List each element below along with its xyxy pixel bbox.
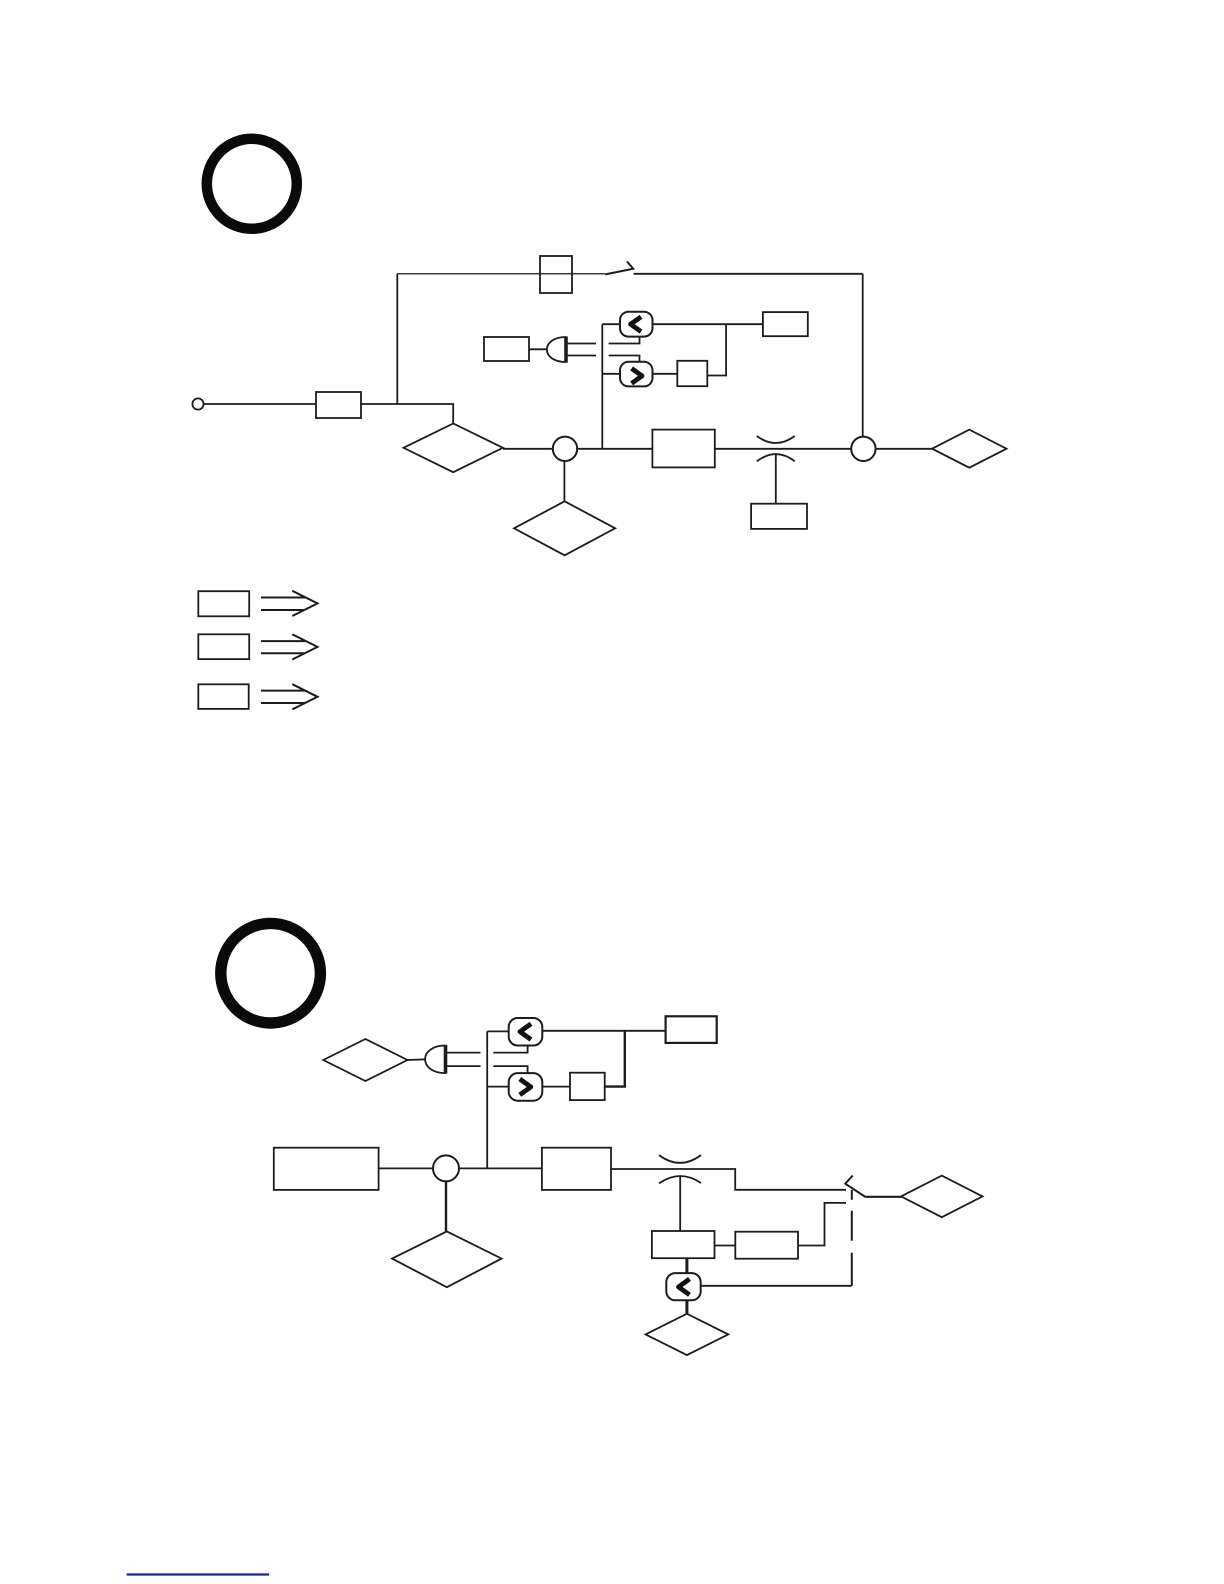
switch blade 1 [605,262,633,275]
wire [798,1203,846,1246]
diamond D5 [901,1176,983,1218]
wire [653,373,678,375]
wire riser 2 [486,1031,488,1168]
box B8 [666,1016,717,1043]
diamond D7 [646,1314,729,1355]
wire [529,348,548,350]
wire [715,1245,736,1247]
box B6 [652,430,714,468]
box B2 [540,256,572,293]
wire double line bottom 2 [446,1066,528,1073]
box B4 [677,361,707,386]
wire [715,448,851,450]
wire [611,1169,846,1190]
legend box L3 [198,684,248,709]
wire dashed [851,1190,853,1286]
wire drop 1 [685,1258,688,1273]
diamond D6 [392,1231,502,1287]
wire [361,404,453,424]
valve icon V1 less-than [620,312,653,337]
wire [653,323,763,325]
wire [379,1167,433,1169]
wire [602,323,620,325]
diamond D4 [323,1039,407,1081]
box B9 [570,1073,605,1100]
wire drop 2 [685,1300,688,1313]
wire [542,1086,570,1088]
wire [459,1167,542,1169]
wire double line bottom [566,356,640,362]
wire [487,1086,509,1088]
switch blade 2 [845,1176,865,1198]
wire double line top 2 [446,1046,528,1053]
wire [445,1181,447,1231]
wire [542,1030,665,1032]
wire bypass right leg [862,274,864,437]
box B10 [274,1148,379,1190]
junction node J3 [433,1155,459,1181]
wire [679,1176,681,1231]
valve icon V2 greater-than [620,362,653,387]
wire [577,448,652,450]
legend arrow A1 [261,591,318,616]
wire [204,403,316,405]
diamond D2 [932,430,1006,468]
box B11 [542,1148,611,1190]
footer rule [127,1573,270,1575]
valve icon V3 less-than [509,1018,543,1046]
legend box L1 [198,591,249,616]
gate G1 half-disc [547,336,566,362]
junction node J1 [553,437,577,461]
wire [407,1058,426,1061]
wire [563,461,565,501]
wire bypass top [397,273,605,275]
junction node J2 [851,437,875,461]
box B3 [484,337,529,361]
box B12 [652,1231,715,1258]
wire [876,448,933,450]
valve icon V4 greater-than [509,1073,543,1101]
input terminal [192,398,203,409]
legend arrow A3 [261,684,318,709]
box B7 [751,504,807,529]
wire bypass top right [634,273,863,275]
wire [503,448,553,450]
box B13 [735,1232,798,1259]
legend arrow A2 [261,634,318,659]
box B5 [763,312,808,336]
wire riser 1 [601,324,603,449]
step marker circle 1 [207,139,297,229]
wire [775,454,777,504]
legend box L2 [198,634,249,659]
diamond D3 [514,501,615,555]
valve icon V5 less-than [666,1273,700,1300]
wire [707,324,726,375]
gate G2 half-disc [425,1045,445,1074]
diamond D1 [404,424,503,473]
wire bypass left leg [396,274,398,404]
wire [605,1031,625,1087]
step marker circle 2 [221,923,321,1023]
flow restrictor F2 [659,1155,701,1183]
wire [602,373,620,375]
wire [487,1030,509,1032]
wire [701,1285,852,1287]
box B1 [316,392,361,418]
wire [866,1196,902,1198]
flow restrictor F1 [757,436,795,461]
wire double line top [566,337,640,344]
